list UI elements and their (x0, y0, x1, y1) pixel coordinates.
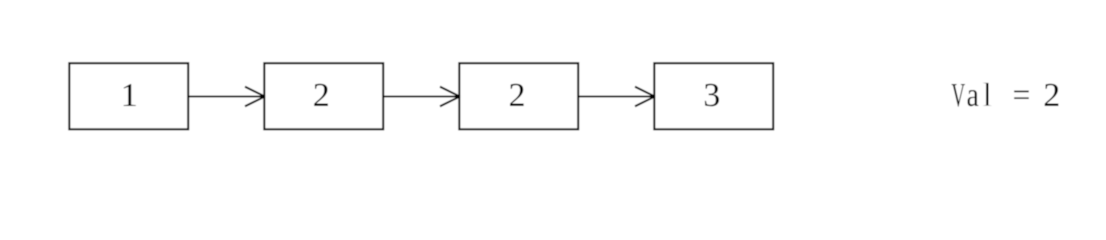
label Val = 2 (951, 75, 1060, 114)
svg-text:1: 1 (121, 77, 138, 114)
svg-text:V: V (951, 75, 965, 113)
svg-text:3: 3 (703, 77, 720, 114)
svg-text:=: = (1013, 77, 1031, 114)
wire arrow 2 (383, 87, 460, 107)
svg-text:2: 2 (1043, 77, 1060, 114)
wire arrow 3 (578, 87, 655, 107)
node box 4 (654, 63, 773, 129)
svg-text:l: l (982, 77, 993, 114)
node box 3 (459, 63, 578, 129)
wire arrow 1 (188, 87, 265, 107)
node box 2 (264, 63, 383, 129)
svg-text:2: 2 (509, 77, 526, 114)
node box 1 (69, 63, 188, 129)
svg-text:2: 2 (313, 77, 330, 114)
svg-text:a: a (967, 75, 980, 113)
